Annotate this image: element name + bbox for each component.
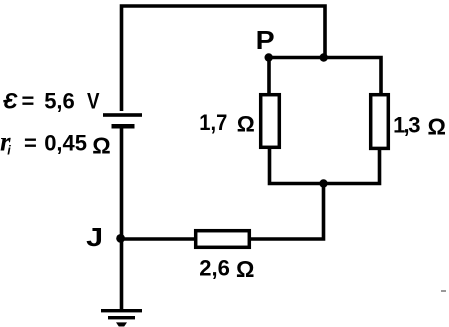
svg-text:Ω: Ω <box>92 133 110 159</box>
svg-text:J: J <box>86 222 103 252</box>
svg-text:V: V <box>87 89 100 114</box>
svg-text:i: i <box>7 144 11 158</box>
svg-text:=: = <box>22 89 35 114</box>
svg-text:=: = <box>24 131 37 156</box>
svg-text:0,45: 0,45 <box>44 131 87 156</box>
svg-text:Ω: Ω <box>236 256 254 282</box>
svg-text:2,6: 2,6 <box>199 256 230 281</box>
svg-text:Ω: Ω <box>237 112 255 137</box>
svg-text:5,6: 5,6 <box>44 89 75 114</box>
svg-text:Ω: Ω <box>428 114 446 140</box>
svg-text:3: 3 <box>408 113 420 138</box>
svg-text:P: P <box>256 27 275 55</box>
svg-text:1,7: 1,7 <box>199 110 227 135</box>
